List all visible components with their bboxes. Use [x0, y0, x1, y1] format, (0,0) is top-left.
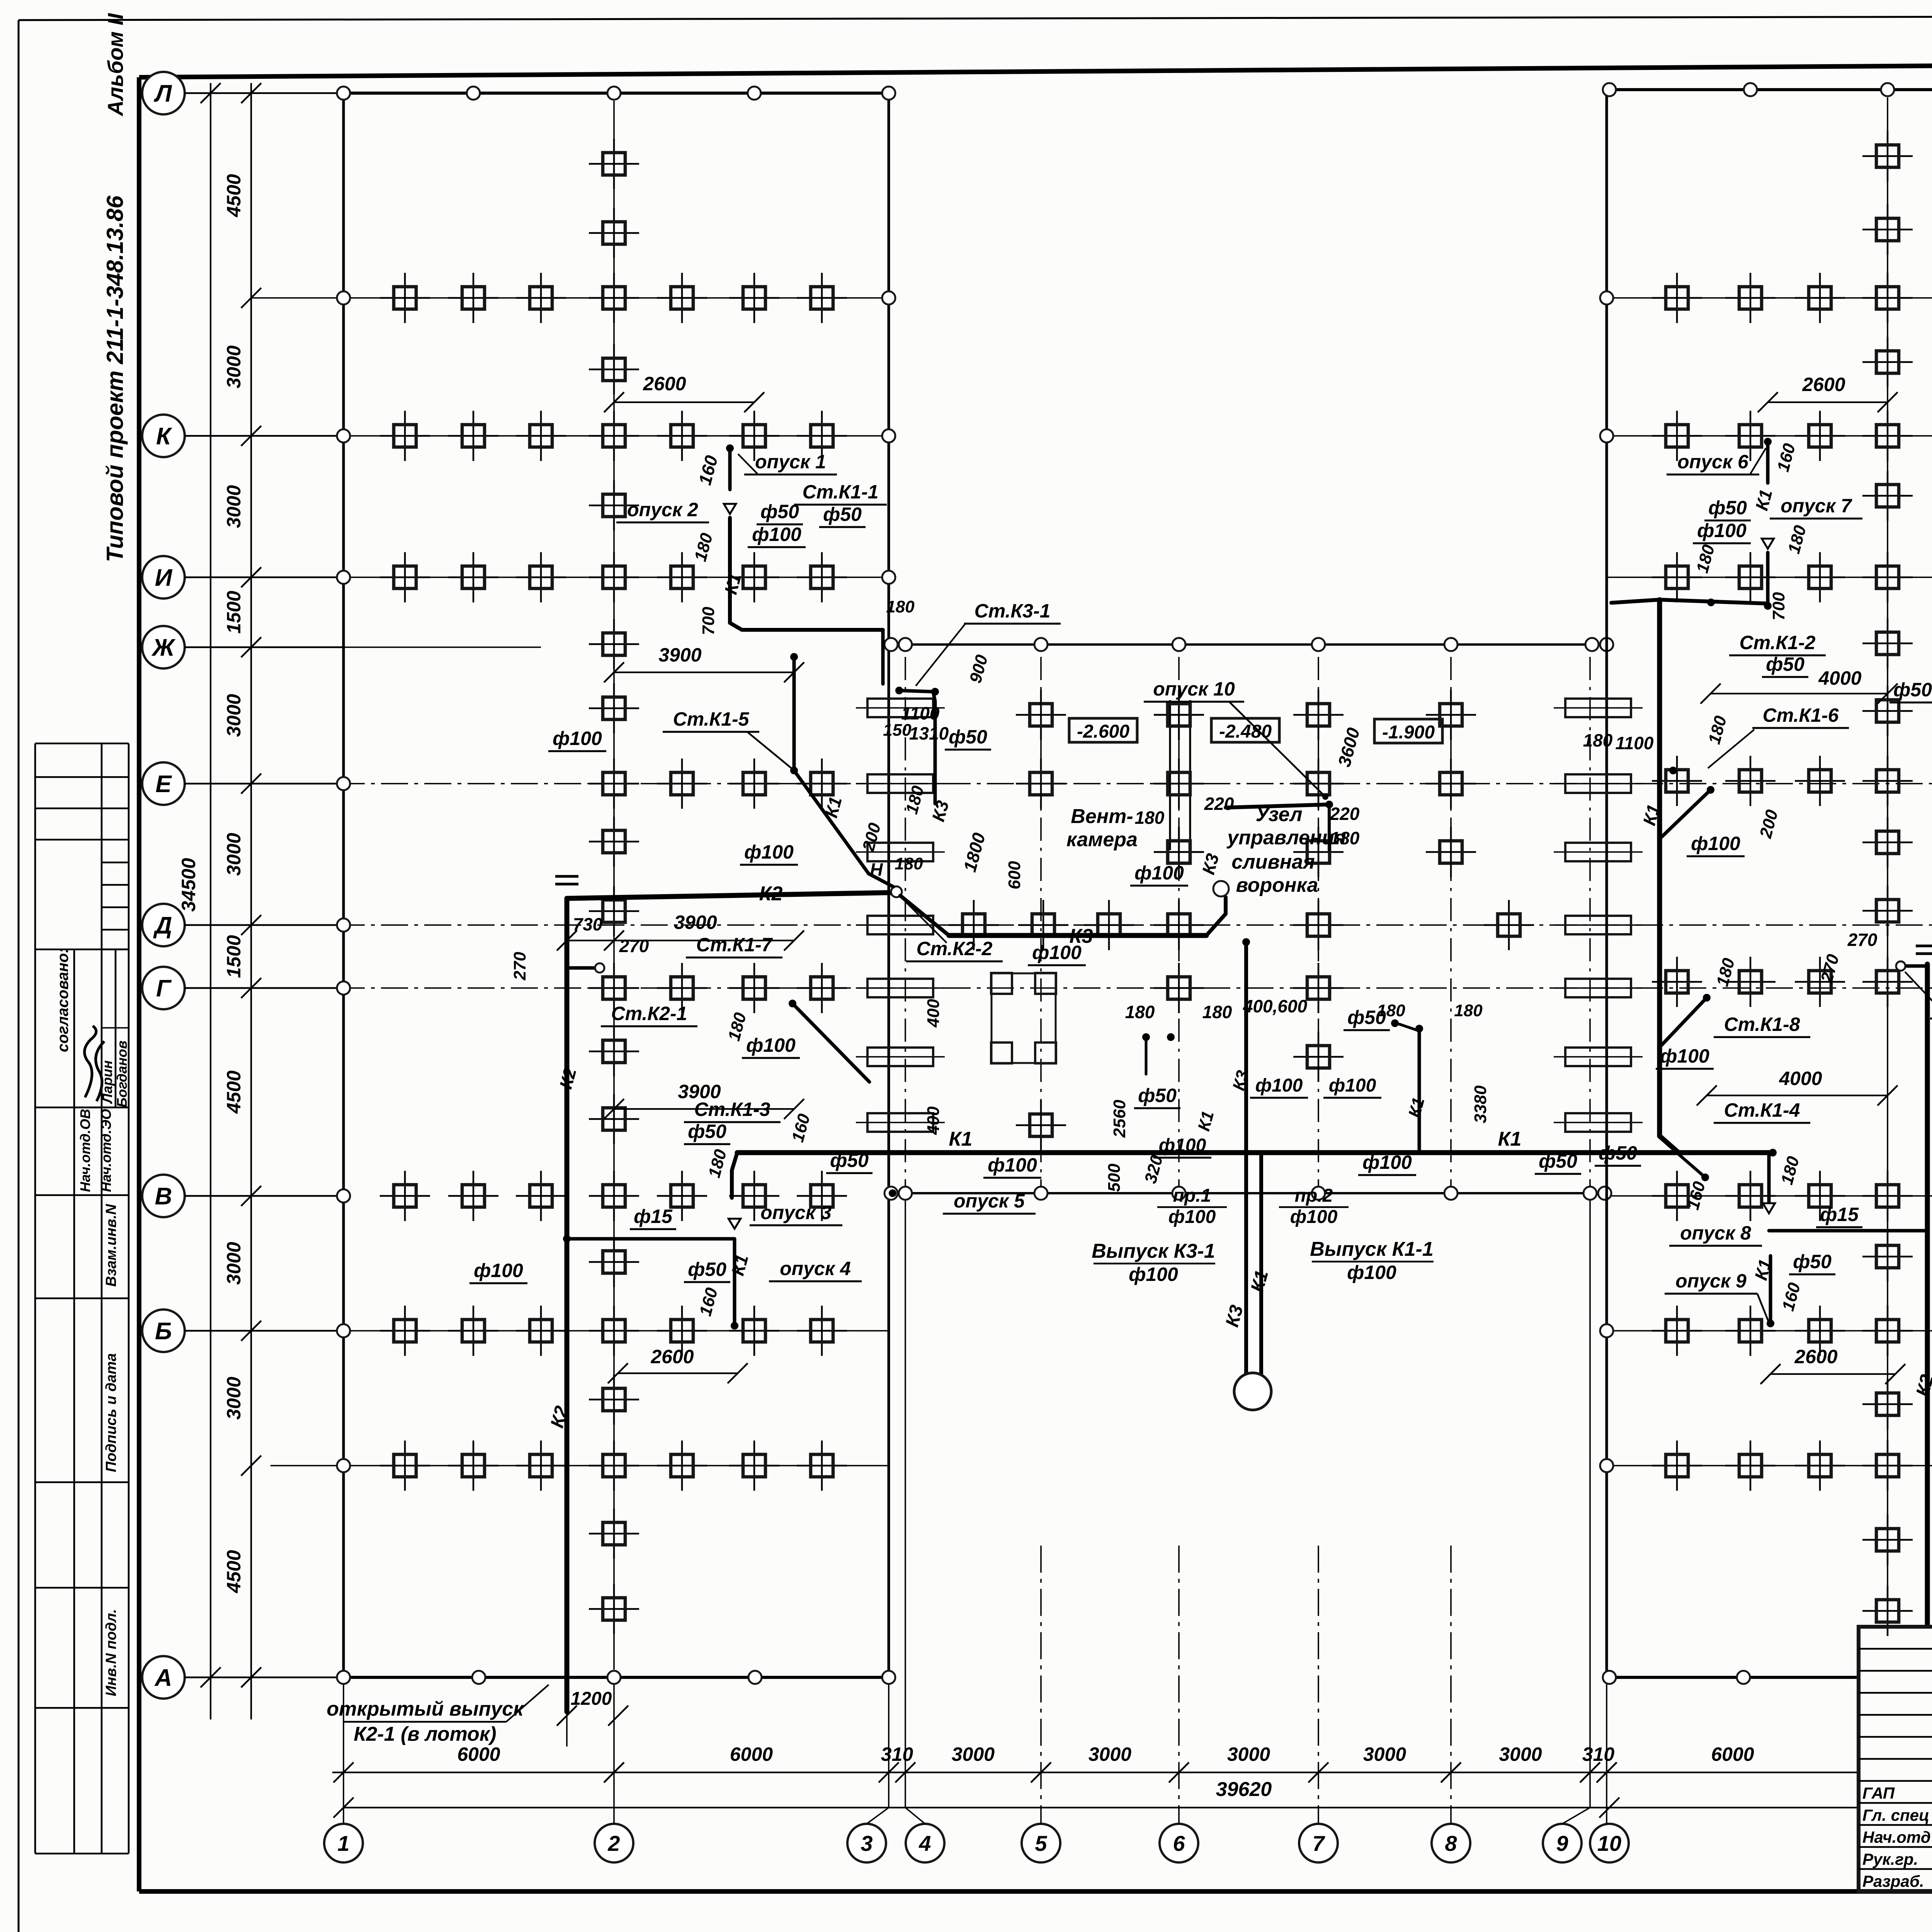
label Ст.К1-5	[663, 708, 759, 732]
label К2 rot r	[1912, 1372, 1932, 1399]
left wing pile rows full	[380, 273, 847, 1491]
left strip labels: departments	[77, 1109, 114, 1192]
svg-text:2560: 2560	[1110, 1100, 1129, 1138]
svg-text:6000: 6000	[457, 1743, 500, 1765]
label ф100 ax7	[1323, 1075, 1381, 1098]
grade beams ladder at axes 3-4	[856, 699, 945, 1132]
pipe К1 right wing vertical	[1660, 600, 1679, 1153]
svg-text:ф100: ф100	[1329, 1075, 1376, 1096]
label Ст.К1-2	[1729, 632, 1826, 655]
axis line 3 with bent leader	[867, 1193, 889, 1824]
bottom dim 3000	[1308, 1743, 1406, 1782]
left dim tick bottom	[241, 1667, 261, 1687]
label H	[870, 859, 883, 879]
svg-text:-2.600: -2.600	[1077, 721, 1129, 742]
left dim 1500	[223, 915, 261, 978]
label 320 rot	[1141, 1153, 1167, 1185]
label 180 r3	[1705, 714, 1730, 746]
svg-text:ф100: ф100	[1697, 520, 1747, 541]
svg-text:8: 8	[1445, 1831, 1457, 1855]
leader Ст.К2-3	[1905, 972, 1932, 1005]
label 160 rot c	[788, 1112, 814, 1144]
pipe ф15 line left	[567, 1237, 735, 1241]
title block signature table	[1859, 1627, 1932, 1891]
svg-text:1500: 1500	[223, 591, 245, 634]
bottom dim 3000	[895, 1743, 995, 1782]
label ф50 b	[819, 503, 866, 527]
label ф100 main l	[983, 1154, 1041, 1178]
label 2600 K row	[604, 373, 764, 412]
label ф50 low	[826, 1150, 872, 1173]
label 2600 r2	[1760, 1346, 1905, 1384]
svg-text:Гл. спец: Гл. спец	[1862, 1806, 1929, 1824]
svg-text:10: 10	[1597, 1831, 1621, 1855]
leader опуск 6	[1750, 448, 1766, 474]
axis bubble Е	[142, 762, 344, 805]
sewer well circle	[1234, 1373, 1271, 1410]
svg-text:Выпуск К1-1: Выпуск К1-1	[1310, 1238, 1434, 1260]
label 180 g	[1202, 1002, 1232, 1022]
main title block outline	[1859, 1627, 1932, 1891]
left dim 3000	[223, 774, 261, 876]
svg-text:ф100: ф100	[1159, 1135, 1206, 1156]
svg-text:2600: 2600	[1794, 1346, 1837, 1367]
svg-text:В: В	[155, 1183, 172, 1210]
level mark -1.900	[1374, 719, 1442, 743]
label Ст.К1-8	[1714, 1014, 1810, 1037]
svg-text:180: 180	[1377, 1001, 1405, 1020]
svg-text:ф50: ф50	[1766, 653, 1804, 675]
label К2 rot l	[547, 1404, 572, 1430]
label пр.1 ф100	[1157, 1185, 1227, 1227]
bottom dim 6000	[333, 1743, 500, 1782]
label опуск 1	[744, 451, 837, 474]
svg-text:3000: 3000	[952, 1743, 995, 1765]
svg-text:Выпуск К3-1: Выпуск К3-1	[1092, 1240, 1215, 1262]
pit structure (приямок)	[991, 973, 1056, 1063]
level mark -2.600	[1069, 718, 1137, 742]
pipe опуск8 stub	[1763, 1153, 1775, 1213]
label 180 r4	[1713, 956, 1738, 988]
svg-text:опуск 4: опуск 4	[780, 1258, 851, 1279]
left dim 3000	[223, 637, 261, 737]
pipe опуск4 stub	[731, 1239, 738, 1330]
svg-text:Ст.К1-3: Ст.К1-3	[694, 1099, 770, 1120]
svg-text:опуск 5: опуск 5	[954, 1190, 1025, 1212]
label 180 r3b	[1583, 730, 1613, 750]
bottom dim 310	[879, 1743, 913, 1782]
svg-text:1100: 1100	[1616, 733, 1654, 753]
middle section outline	[889, 645, 1607, 1193]
left wing perimeter nodes right edge	[882, 291, 895, 584]
left dim 4500	[223, 83, 261, 218]
svg-text:ф100: ф100	[1129, 1264, 1178, 1285]
label 900 rot	[966, 653, 992, 685]
pipe Ст.К3-1 stub top of middle	[895, 687, 939, 804]
svg-text:3000: 3000	[223, 1377, 245, 1420]
label 180 st0	[886, 597, 915, 616]
pipe К1 vertical to well	[1259, 1153, 1263, 1376]
label 180 a	[691, 531, 716, 563]
pipe К2 left wing vertical	[565, 898, 570, 1712]
label Ст.К3-1	[964, 600, 1061, 624]
svg-text:ф50: ф50	[830, 1150, 869, 1171]
pipe опуск1 stub	[726, 444, 734, 490]
label К1 rot b	[821, 794, 845, 820]
svg-text:500: 500	[1105, 1163, 1124, 1192]
label 2560 rot	[1110, 1100, 1129, 1138]
pipe опуск9 stub	[1767, 1256, 1774, 1327]
svg-text:1: 1	[337, 1831, 349, 1855]
svg-text:Альбом II: Альбом II	[103, 13, 128, 117]
bottom dim 6000	[1597, 1743, 1754, 1782]
pipe К3 to funnel	[1206, 897, 1226, 935]
left wing perimeter nodes top	[337, 87, 895, 100]
label ф50 r5	[1789, 1251, 1835, 1274]
pipe branch at axis6 lower	[1142, 1033, 1175, 1074]
label 1100 a	[901, 703, 940, 723]
left wing outline	[344, 93, 889, 1677]
pipe К1 right wing И-row horizontal	[1611, 600, 1768, 604]
svg-text:4500: 4500	[223, 174, 245, 217]
label 1800 rot	[959, 830, 989, 874]
leader Ст.К1-6	[1708, 730, 1754, 768]
svg-text:опуск 8: опуск 8	[1680, 1222, 1751, 1244]
svg-text:Взам.инв.N: Взам.инв.N	[103, 1204, 119, 1287]
label 270 a	[619, 936, 649, 956]
svg-text:3000: 3000	[223, 833, 245, 876]
left dim 4500	[223, 978, 261, 1114]
label 270 rot	[510, 952, 529, 981]
label 1100 r	[1616, 733, 1654, 753]
axis bubble 5	[1022, 1824, 1060, 1862]
svg-text:1500: 1500	[223, 935, 245, 978]
svg-text:Б: Б	[155, 1318, 172, 1345]
left dim 3000	[223, 1321, 261, 1420]
label ф100 main r	[1358, 1151, 1416, 1175]
svg-text:ф100: ф100	[1255, 1075, 1303, 1096]
svg-text:34500: 34500	[178, 858, 199, 912]
svg-text:310: 310	[881, 1743, 913, 1765]
label К2 cap r	[1916, 946, 1932, 954]
pipe branch at axis7 lower	[1391, 1019, 1423, 1153]
right wing pile column	[1887, 97, 1888, 1625]
pipe Ст.К1-7 diagonal	[789, 1000, 869, 1082]
label 400 rot lw	[924, 999, 943, 1028]
svg-text:Г: Г	[156, 975, 172, 1002]
svg-text:310: 310	[1582, 1743, 1615, 1765]
svg-text:опуск 2: опуск 2	[627, 499, 698, 520]
svg-text:1310: 1310	[909, 723, 949, 743]
svg-text:5: 5	[1035, 1831, 1047, 1855]
svg-text:согласовано:: согласовано:	[54, 948, 71, 1052]
svg-text:Ст.К2-2: Ст.К2-2	[917, 938, 993, 959]
left wing pile rows partial E G	[589, 759, 847, 1013]
pipe К3 vertical to well	[1244, 942, 1248, 1376]
label ф100 r3	[1656, 1045, 1714, 1069]
axis bubble И	[142, 556, 344, 599]
svg-text:4500: 4500	[223, 1550, 245, 1593]
svg-text:ф100: ф100	[1362, 1151, 1412, 1173]
svg-text:ф100: ф100	[988, 1154, 1037, 1176]
svg-text:ф100: ф100	[744, 841, 794, 863]
svg-text:3000: 3000	[1227, 1743, 1270, 1765]
svg-text:3900: 3900	[658, 644, 701, 666]
label ф50 mid2	[1134, 1085, 1180, 1108]
label К1 rot mid	[1194, 1109, 1218, 1133]
left dimension chain line (segments)	[250, 83, 252, 1719]
level mark -2.480	[1211, 718, 1279, 742]
label ф50 r3	[1889, 679, 1932, 702]
axis bubble Ж	[142, 626, 344, 668]
label К3 rot st	[928, 798, 952, 824]
axis line X2 across wings	[270, 1465, 1932, 1466]
label Ст.К1-6	[1752, 704, 1849, 728]
svg-text:6000: 6000	[1711, 1743, 1754, 1765]
axis bubble 10	[1590, 1824, 1629, 1862]
pipe К1 right wing lower diagonal	[1679, 1154, 1709, 1181]
label ф50 st	[945, 726, 991, 750]
left wing perimeter nodes bottom	[337, 1671, 895, 1684]
label 160 r	[1774, 441, 1799, 474]
leader Ст.К2-2	[904, 900, 947, 943]
label ф100 c	[548, 728, 606, 751]
label ф50 r4	[1595, 1142, 1641, 1166]
label К3 rot low	[1229, 1068, 1253, 1092]
label 700 r	[1769, 592, 1788, 621]
svg-text:ГАП: ГАП	[1862, 1784, 1895, 1802]
pipe right wing Ст.К1-8 diagonal	[1661, 994, 1711, 1046]
opusk3 triangle	[563, 1219, 741, 1243]
svg-text:3380: 3380	[1471, 1085, 1490, 1123]
svg-text:220: 220	[1204, 794, 1234, 814]
svg-text:камера: камера	[1066, 828, 1138, 851]
leader Ст.К3-1	[916, 623, 966, 686]
svg-text:Узел: Узел	[1256, 803, 1303, 826]
label Выпуск К3-1	[1092, 1240, 1215, 1285]
bottom total dimension 39620	[333, 1778, 1859, 1818]
axis bubble 3	[847, 1824, 886, 1862]
svg-text:600: 600	[1005, 861, 1024, 889]
svg-text:7: 7	[1312, 1831, 1325, 1855]
axis bubble Б	[142, 1310, 344, 1352]
label 270 r	[1847, 930, 1878, 950]
svg-text:опуск 10: опуск 10	[1153, 678, 1235, 700]
pipe К1 into left wing bottom	[732, 1153, 737, 1198]
axis bubble В	[142, 1175, 344, 1217]
svg-text:опуск 3: опуск 3	[760, 1202, 832, 1223]
axis bubble 2	[595, 1824, 633, 1862]
label ф100 mid3	[1153, 1135, 1211, 1158]
right wing pile rows full	[1652, 273, 1932, 1491]
label ф100 r1	[1693, 520, 1751, 543]
pipe опуск7 stub	[1762, 539, 1774, 610]
drain funnel circle	[1213, 881, 1229, 896]
svg-text:ф50: ф50	[688, 1259, 726, 1280]
pipe К1 vertical at 2285	[881, 630, 885, 684]
svg-text:3900: 3900	[674, 912, 717, 933]
svg-text:3000: 3000	[223, 1242, 245, 1285]
svg-text:ф100: ф100	[1660, 1045, 1709, 1067]
label 160 rot r3	[1779, 1281, 1804, 1313]
label Ст.К1-4	[1714, 1099, 1810, 1123]
label опуск 3	[750, 1202, 842, 1225]
svg-text:150: 150	[883, 721, 912, 740]
axis line 1 stub	[343, 1677, 344, 1824]
axis line 9 with bent leader	[1562, 1193, 1590, 1824]
label 180 uzel	[1330, 828, 1360, 848]
title signatures column1	[1862, 1784, 1931, 1890]
pipe К3 upper branch	[1226, 804, 1329, 808]
svg-text:ф100: ф100	[474, 1260, 523, 1281]
svg-text:ф100: ф100	[553, 728, 602, 749]
label ф50 r1	[1704, 497, 1751, 520]
axis bubble 7	[1299, 1824, 1338, 1862]
leader опуск 1	[738, 454, 757, 474]
label 160 v	[694, 453, 721, 487]
label 180 f	[1125, 1002, 1155, 1022]
label 270 rot r	[1817, 952, 1843, 985]
label 180 d	[724, 1010, 750, 1043]
svg-text:2600: 2600	[1802, 374, 1845, 395]
label 700 a	[699, 607, 718, 635]
axis line X1/K/И right wing	[1607, 298, 1932, 1196]
label 180 st	[902, 784, 928, 816]
svg-text:ф100: ф100	[1290, 1207, 1338, 1227]
svg-text:3000: 3000	[1088, 1743, 1131, 1765]
axis bubble Д	[142, 904, 344, 946]
label К2 main	[759, 883, 783, 905]
svg-text:ф15: ф15	[1820, 1204, 1859, 1225]
middle perimeter nodes bottom	[884, 1187, 1611, 1200]
left dim 3000	[223, 1186, 261, 1285]
svg-text:открытый выпуск: открытый выпуск	[327, 1698, 524, 1720]
pipe К2 right wing vertical	[1925, 964, 1930, 1625]
label К1 rot well	[1247, 1268, 1272, 1294]
label 180 vent	[1135, 808, 1165, 828]
right wing perimeter nodes left edge	[1600, 291, 1613, 1472]
svg-text:180: 180	[1454, 1001, 1483, 1020]
right wing perimeter nodes top	[1603, 83, 1932, 96]
label 180 r5	[1777, 1154, 1803, 1187]
svg-text:ф50: ф50	[1599, 1142, 1637, 1164]
svg-text:180: 180	[1135, 808, 1165, 828]
svg-text:ф50: ф50	[1893, 679, 1932, 701]
pipe К1 main horizontal across middle	[737, 1150, 1773, 1155]
left dim 4500	[223, 1456, 261, 1594]
label пр.2 ф100	[1279, 1185, 1349, 1227]
svg-text:Л: Л	[154, 80, 172, 107]
axis line Е across	[251, 783, 1932, 784]
label ф100 funnel	[1130, 862, 1188, 886]
pipe К3 middle horizontal	[949, 933, 1206, 938]
axis line Г across	[251, 987, 1932, 989]
axis line A leader	[185, 1677, 344, 1678]
label К3 rot well	[1222, 1303, 1247, 1329]
svg-text:сливная: сливная	[1231, 851, 1315, 873]
pipe ф15 line right	[1769, 1229, 1927, 1233]
left dim total 34500	[178, 83, 221, 1687]
middle perimeter nodes top	[884, 638, 1613, 651]
label 500 rot	[1105, 1163, 1124, 1192]
left strip signatures scribble	[85, 1026, 104, 1101]
svg-text:Нач.отд.ЭО: Нач.отд.ЭО	[98, 1109, 114, 1192]
svg-text:2: 2	[607, 1831, 620, 1855]
axis bubble 6	[1160, 1824, 1198, 1862]
label К1 rot r1	[1751, 487, 1776, 512]
svg-text:3000: 3000	[1363, 1743, 1406, 1765]
label 3900 Ж	[604, 644, 804, 682]
svg-text:4000: 4000	[1779, 1068, 1822, 1089]
svg-text:ф50: ф50	[760, 501, 799, 522]
left wing pile column axis 2	[613, 101, 615, 1670]
leader опуск 9	[1757, 1294, 1768, 1321]
axis bubble А	[142, 1656, 344, 1699]
opusk2 triangle	[724, 504, 736, 514]
pipe right wing Ст.К1-6 diagonal	[1659, 767, 1714, 840]
label ф50 k13	[684, 1121, 730, 1144]
bottom dim 310	[1580, 1743, 1614, 1782]
svg-text:3: 3	[861, 1831, 872, 1855]
svg-text:6000: 6000	[730, 1743, 773, 1765]
svg-text:-2.480: -2.480	[1219, 721, 1272, 742]
left wing perimeter nodes left edge	[337, 291, 350, 1472]
axis bubble Л	[142, 72, 344, 114]
svg-text:К1: К1	[949, 1128, 973, 1150]
axis line 2 stub	[613, 1677, 615, 1824]
label Вент-камера	[1066, 805, 1138, 851]
right wing perimeter nodes bottom	[1603, 1671, 1750, 1684]
axis bubble 8	[1432, 1824, 1470, 1862]
middle section piles	[949, 690, 1534, 1150]
svg-text:180: 180	[1583, 730, 1613, 750]
svg-text:270: 270	[619, 936, 649, 956]
label К1 rot l4	[727, 1252, 752, 1277]
label 1200 l	[557, 1685, 628, 1747]
svg-text:Ж: Ж	[151, 634, 176, 661]
label 200 rot	[859, 821, 885, 854]
grade beams ladder at axes 9-10	[1554, 699, 1643, 1132]
bottom dim 3000	[1031, 1743, 1131, 1782]
svg-text:Ст.К1-2: Ст.К1-2	[1740, 632, 1816, 653]
middle column axis lines through piles	[905, 657, 1590, 1186]
vent chamber shaft at axis 6	[1154, 657, 1204, 1186]
label Выпуск К1-1	[1310, 1238, 1434, 1283]
svg-text:ф100: ф100	[1168, 1207, 1216, 1227]
axis bubble 9	[1543, 1824, 1582, 1862]
label ф50 l4	[684, 1259, 730, 1282]
svg-text:4: 4	[918, 1831, 931, 1855]
svg-text:220: 220	[1330, 804, 1360, 824]
label К1 rot r3	[1750, 1257, 1775, 1282]
label 3900 d	[614, 912, 804, 951]
svg-text:опуск 7: опуск 7	[1781, 495, 1852, 517]
label 180 ax7a	[1377, 1001, 1405, 1020]
label ф100 d	[740, 841, 798, 865]
label ф100 r2	[1687, 833, 1745, 856]
axis line 5 stub	[1040, 1546, 1042, 1824]
label 220 a	[1204, 794, 1234, 814]
svg-text:Ст.К1-4: Ст.К1-4	[1724, 1099, 1800, 1121]
label ф100 k2l	[469, 1260, 527, 1283]
svg-text:-1.900: -1.900	[1382, 722, 1435, 743]
label 150 a	[883, 721, 912, 740]
left dimension chain line (total 34500)	[210, 83, 211, 1719]
node H circle	[891, 886, 902, 897]
axis bubble 1	[324, 1824, 363, 1862]
label ф50 mid	[1535, 1150, 1581, 1174]
svg-text:ф50: ф50	[1793, 1251, 1832, 1272]
